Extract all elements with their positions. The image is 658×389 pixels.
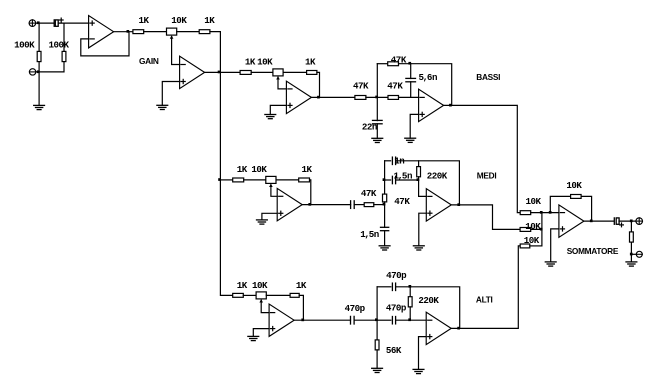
wire: U5 output to series cap [302, 204, 350, 206]
svg-text:47K: 47K [394, 196, 410, 207]
wire: U7 output to 470p series cap [294, 319, 350, 321]
svg-text:1K: 1K [245, 57, 256, 68]
ground (input) [34, 105, 45, 109]
wire: node A to feedback 47K [377, 63, 387, 65]
svg-text:5,6n: 5,6n [419, 72, 437, 83]
wire: U6 + input to ground [419, 213, 427, 246]
junction: U8 output node [457, 327, 460, 330]
svg-text:10K: 10K [526, 196, 542, 207]
wire: P4 to R16 [266, 294, 290, 296]
wire: feedback top row to U4 output [399, 64, 452, 106]
wire: P2 to R6 [283, 71, 307, 73]
junction: node B MEDI [383, 178, 386, 181]
wire: node A vertical (top row to 22n) [376, 64, 378, 121]
junction: U9 output node [590, 220, 593, 223]
output terminal + (plus) [636, 218, 643, 225]
svg-text:1K: 1K [237, 280, 248, 291]
resistor R20 10K (MEDI sum) [520, 228, 531, 232]
op-amp U3 BASSI first stage [286, 81, 311, 113]
wire: + node down to resistor 100K R1 [38, 23, 40, 51]
wire: node B up row to 1n cap [385, 160, 391, 162]
svg-text:100K: 100K [49, 39, 70, 50]
resistor R21 10K (ALTI sum) [520, 244, 530, 248]
capacitor C2 22n (BASSI shunt) [373, 120, 383, 123]
junction: U7 output node [301, 319, 304, 322]
wire: R2 to - input terminal [36, 62, 64, 72]
capacitor C10 470p (ALTI feedback) [392, 283, 395, 290]
resistor R6 1K (BASSI feedback) [307, 71, 317, 75]
capacitor C6 1,5n (MEDI series) [392, 176, 395, 183]
resistor R19 10K (BASSI sum) [520, 211, 531, 215]
op-amp U9 SOMMATORE [559, 205, 584, 237]
svg-text:ALTI: ALTI [476, 295, 493, 305]
resistor R15 1K (ALTI) [233, 293, 244, 297]
resistor R23 (output load) [630, 232, 634, 242]
capacitor C11 output coupling (polarized, + mark) [614, 218, 623, 227]
junction: sum node / feedback [549, 211, 552, 214]
potentiometer P3 10K MEDI (wiper to U5 -) [266, 176, 277, 196]
svg-text:470p: 470p [386, 303, 407, 314]
svg-text:1K: 1K [204, 15, 215, 26]
op-amp U7 ALTI first stage [269, 304, 294, 336]
wire: U2 + input to ground [162, 82, 179, 106]
junction: node C ALTI [408, 318, 411, 321]
svg-text:10K: 10K [171, 15, 187, 26]
ground (U5 +) [257, 220, 268, 224]
capacitor C8 470p (ALTI series) [351, 316, 355, 324]
junction: R20 on band bus [540, 228, 543, 231]
wire: U1 output [114, 31, 133, 33]
svg-text:10K: 10K [524, 235, 540, 246]
svg-text:10K: 10K [566, 180, 582, 191]
junction: top row / 5,6n [408, 62, 411, 65]
junction: U4 output node [449, 104, 452, 107]
resistor R18 220K (ALTI feedback) [408, 297, 412, 307]
wire: node A top row to 470p C10 [377, 286, 391, 288]
wire: 220K/node C to U6 - input [419, 177, 427, 197]
capacitor C5 1,5n (MEDI shunt) [381, 227, 389, 230]
ground (U2 +) [157, 105, 168, 109]
wire: C9 to U8 - input [396, 319, 427, 321]
ground (U6 +) [413, 246, 424, 250]
wire: node A to 470p cap C9 [377, 319, 391, 321]
capacitor C3 5,6n (BASSI feedback) [406, 78, 416, 81]
junction: node A BASSI [375, 96, 378, 99]
ground (U3 +) [265, 115, 276, 119]
wire: R12 to node A (MEDI) [374, 204, 385, 206]
wire: U4 + input to ground [410, 114, 418, 138]
op-amp U5 MEDI first stage [277, 188, 302, 220]
wire: U9 + input to ground [551, 229, 559, 262]
capacitor C1 input coupling (polarized, + mark) [54, 18, 63, 26]
junction: + input node [37, 21, 40, 24]
junction: output - node [630, 253, 633, 256]
svg-text:1K: 1K [139, 15, 150, 26]
svg-text:22n: 22n [362, 121, 377, 132]
ground (22n) [372, 138, 383, 142]
svg-text:470p: 470p [345, 303, 366, 314]
resistor R2 100K (bias to -) [62, 51, 66, 61]
potentiometer P1 10K GAIN (wiper to U2 -) [167, 28, 180, 64]
resistor R4 1K (GAIN feedback) [199, 30, 210, 34]
wire: capacitor to op-amp U1 + input [58, 22, 88, 24]
output terminal - (minus) [636, 251, 642, 257]
wire: U9 output to coupling cap [584, 220, 614, 222]
wire: R7 to node A (BASSI) [366, 96, 388, 98]
wire: 1n row to U6 output [396, 161, 460, 205]
junction: node A ALTI [375, 318, 378, 321]
wire: U3 output to 47K [311, 96, 355, 98]
wire: C5 to ground [384, 231, 386, 246]
ground (R17) [372, 368, 383, 372]
wire: node A/B vertical (MEDI) [384, 161, 386, 194]
junction: U1 output node [127, 30, 130, 33]
wire: R1 to ground rail [38, 62, 40, 106]
wire: MEDI output to summing resistor [451, 205, 520, 230]
wire: top row down to 220K [409, 287, 411, 297]
wire: C4 to 47K [354, 204, 364, 206]
resistor R9 47K (BASSI to - input) [388, 96, 399, 100]
svg-text:BASSI: BASSI [476, 72, 500, 82]
wire: U1 feedback loop to - input [81, 32, 129, 56]
wire: P3 to R11 [276, 179, 299, 181]
resistor R17 56K (ALTI shunt) [375, 340, 379, 350]
wire: C6 to node C (MEDI) [396, 179, 419, 181]
wire: bus from R4 down to band rows [210, 32, 233, 296]
svg-text:10K: 10K [257, 57, 273, 68]
wire: sum node up to feedback 10K [550, 196, 570, 212]
svg-text:220K: 220K [427, 170, 448, 181]
ground (U7 +) [248, 336, 259, 340]
svg-text:MEDI: MEDI [477, 171, 497, 181]
wire: 470p row to U8 output [396, 287, 460, 329]
junction: U3 output node [317, 96, 320, 99]
svg-text:10K: 10K [251, 164, 267, 175]
wire: R17 to ground [376, 350, 378, 368]
wire: BASSI output to summing resistor [444, 105, 521, 212]
wire: R6 to U3 output node [317, 72, 320, 97]
resistor R12 47K (MEDI series) [364, 203, 374, 207]
op-amp U2 GAIN stage [180, 56, 205, 88]
input terminal - (minus) [29, 69, 35, 75]
capacitor C4 (MEDI series) [351, 201, 355, 209]
junction: U6 output node [457, 203, 460, 206]
wire: + input terminal to coupling capacitor [36, 22, 54, 24]
wire: output node down to load resistor [630, 221, 632, 232]
capacitor C9 470p (ALTI to - input) [392, 317, 395, 324]
wire: U7 + input to ground [253, 329, 269, 337]
svg-text:SOMMATORE: SOMMATORE [567, 246, 619, 256]
resistor R14 220K (MEDI feedback) [417, 167, 421, 177]
input terminal + (plus) [29, 20, 36, 27]
wire: R19 to U9 - input [531, 212, 559, 214]
ground (U8 +) [413, 369, 424, 373]
op-amp U6 MEDI output stage [426, 189, 451, 221]
junction: bus to MEDI row [218, 178, 221, 181]
wire: R21 to band bus [530, 245, 542, 247]
wire: C11 to + output terminal [619, 220, 636, 222]
wire: R15 to potentiometer P4 [243, 294, 256, 296]
resistor R16 1K (ALTI feedback) [290, 293, 299, 297]
wire: R20 to band bus [531, 228, 542, 230]
resistor R11 1K (MEDI feedback) [299, 178, 310, 182]
wire: band bus vertical [541, 213, 543, 246]
resistor R8 47K (BASSI feedback top) [388, 62, 399, 66]
svg-text:47K: 47K [353, 80, 369, 91]
wire: 22n to ground [376, 124, 378, 139]
svg-text:1K: 1K [305, 57, 316, 68]
wire: C8 to node A (ALTI) [354, 319, 377, 321]
svg-text:1K: 1K [237, 164, 248, 175]
wire: bus to MEDI 1K [220, 179, 232, 181]
ground (output) [626, 262, 637, 266]
junction: top row / 220K ALTI [409, 285, 412, 288]
op-amp U8 ALTI output stage [426, 312, 451, 344]
junction: - input node [37, 70, 40, 73]
resistor R5 1K (BASSI) [240, 71, 251, 75]
wire: node A vertical (ALTI) [376, 287, 378, 340]
op-amp U1 input buffer (+ on top) [89, 16, 114, 48]
wire: 220K to U8 - row [409, 307, 411, 320]
junction: node C MEDI [417, 178, 420, 181]
wire: R3 to potentiometer [144, 31, 167, 33]
resistor R10 1K (MEDI) [233, 178, 244, 182]
svg-text:56K: 56K [386, 345, 402, 356]
wire: U8 + input to ground [419, 337, 427, 370]
resistor R22 10K (SOMMATORE feedback) [571, 195, 582, 199]
svg-text:GAIN: GAIN [139, 56, 159, 66]
wire: top row to 220K [418, 161, 420, 167]
resistor R3 1K (GAIN stage input) [133, 30, 144, 34]
wire: R16 to U7 output node [299, 295, 303, 320]
wire: U2 output to BASSI band [205, 71, 241, 73]
svg-text:47K: 47K [387, 80, 403, 91]
wire: feedback 10K to U9 output [581, 196, 592, 221]
svg-text:1K: 1K [296, 280, 307, 291]
wire: R5 to potentiometer P2 [251, 71, 273, 73]
wire: to - output terminal [631, 253, 636, 255]
potentiometer P4 10K ALTI (wiper to U7 -) [256, 292, 269, 313]
wire: node B to 1,5n series cap [385, 179, 391, 181]
svg-text:1,5n: 1,5n [360, 229, 378, 240]
ground (C5) [379, 246, 390, 250]
capacitor C7 1n (MEDI to output) [392, 157, 395, 164]
wire: U5 + input to ground [262, 213, 277, 220]
svg-text:47K: 47K [361, 188, 377, 199]
wire: cap output node down to resistor 100K R2 [63, 23, 65, 51]
svg-text:220K: 220K [418, 295, 439, 306]
resistor R1 100K (input bias) [37, 51, 41, 61]
junction: U2 output on bus [218, 71, 221, 74]
op-amp U4 BASSI output stage [419, 89, 444, 121]
wire: U3 + input to ground [270, 105, 286, 114]
wire: R10 to potentiometer P3 [244, 179, 266, 181]
wire: ALTI output up to summing resistor [451, 246, 520, 329]
svg-text:10K: 10K [252, 280, 268, 291]
ground (U9 +) [545, 262, 556, 266]
wire: potentiometer to R4 [177, 31, 200, 33]
wire: R11 to U5 output node [310, 180, 311, 205]
junction: U5 output node [308, 203, 311, 206]
resistor R7 47K (BASSI series) [355, 96, 366, 100]
svg-text:1K: 1K [302, 164, 313, 175]
wire: R13 to 1,5n shunt cap [384, 202, 386, 228]
svg-text:470p: 470p [386, 270, 407, 281]
potentiometer P2 10K BASSI (wiper to U3 -) [273, 69, 287, 89]
svg-text:10K: 10K [525, 221, 541, 232]
wire: R9 to U4 - input [399, 96, 419, 98]
wire: 5,6n to U4 - row [410, 82, 412, 98]
junction: output + node [630, 220, 633, 223]
resistor R13 47K (MEDI vertical) [383, 194, 387, 202]
svg-text:100K: 100K [14, 39, 35, 50]
ground (U4 +) [405, 138, 416, 142]
junction: node A MEDI [383, 203, 386, 206]
wire: load resistor to ground [630, 242, 632, 262]
junction: sum node / band bus [540, 211, 543, 214]
wire: top row down to 5,6n [410, 64, 412, 79]
